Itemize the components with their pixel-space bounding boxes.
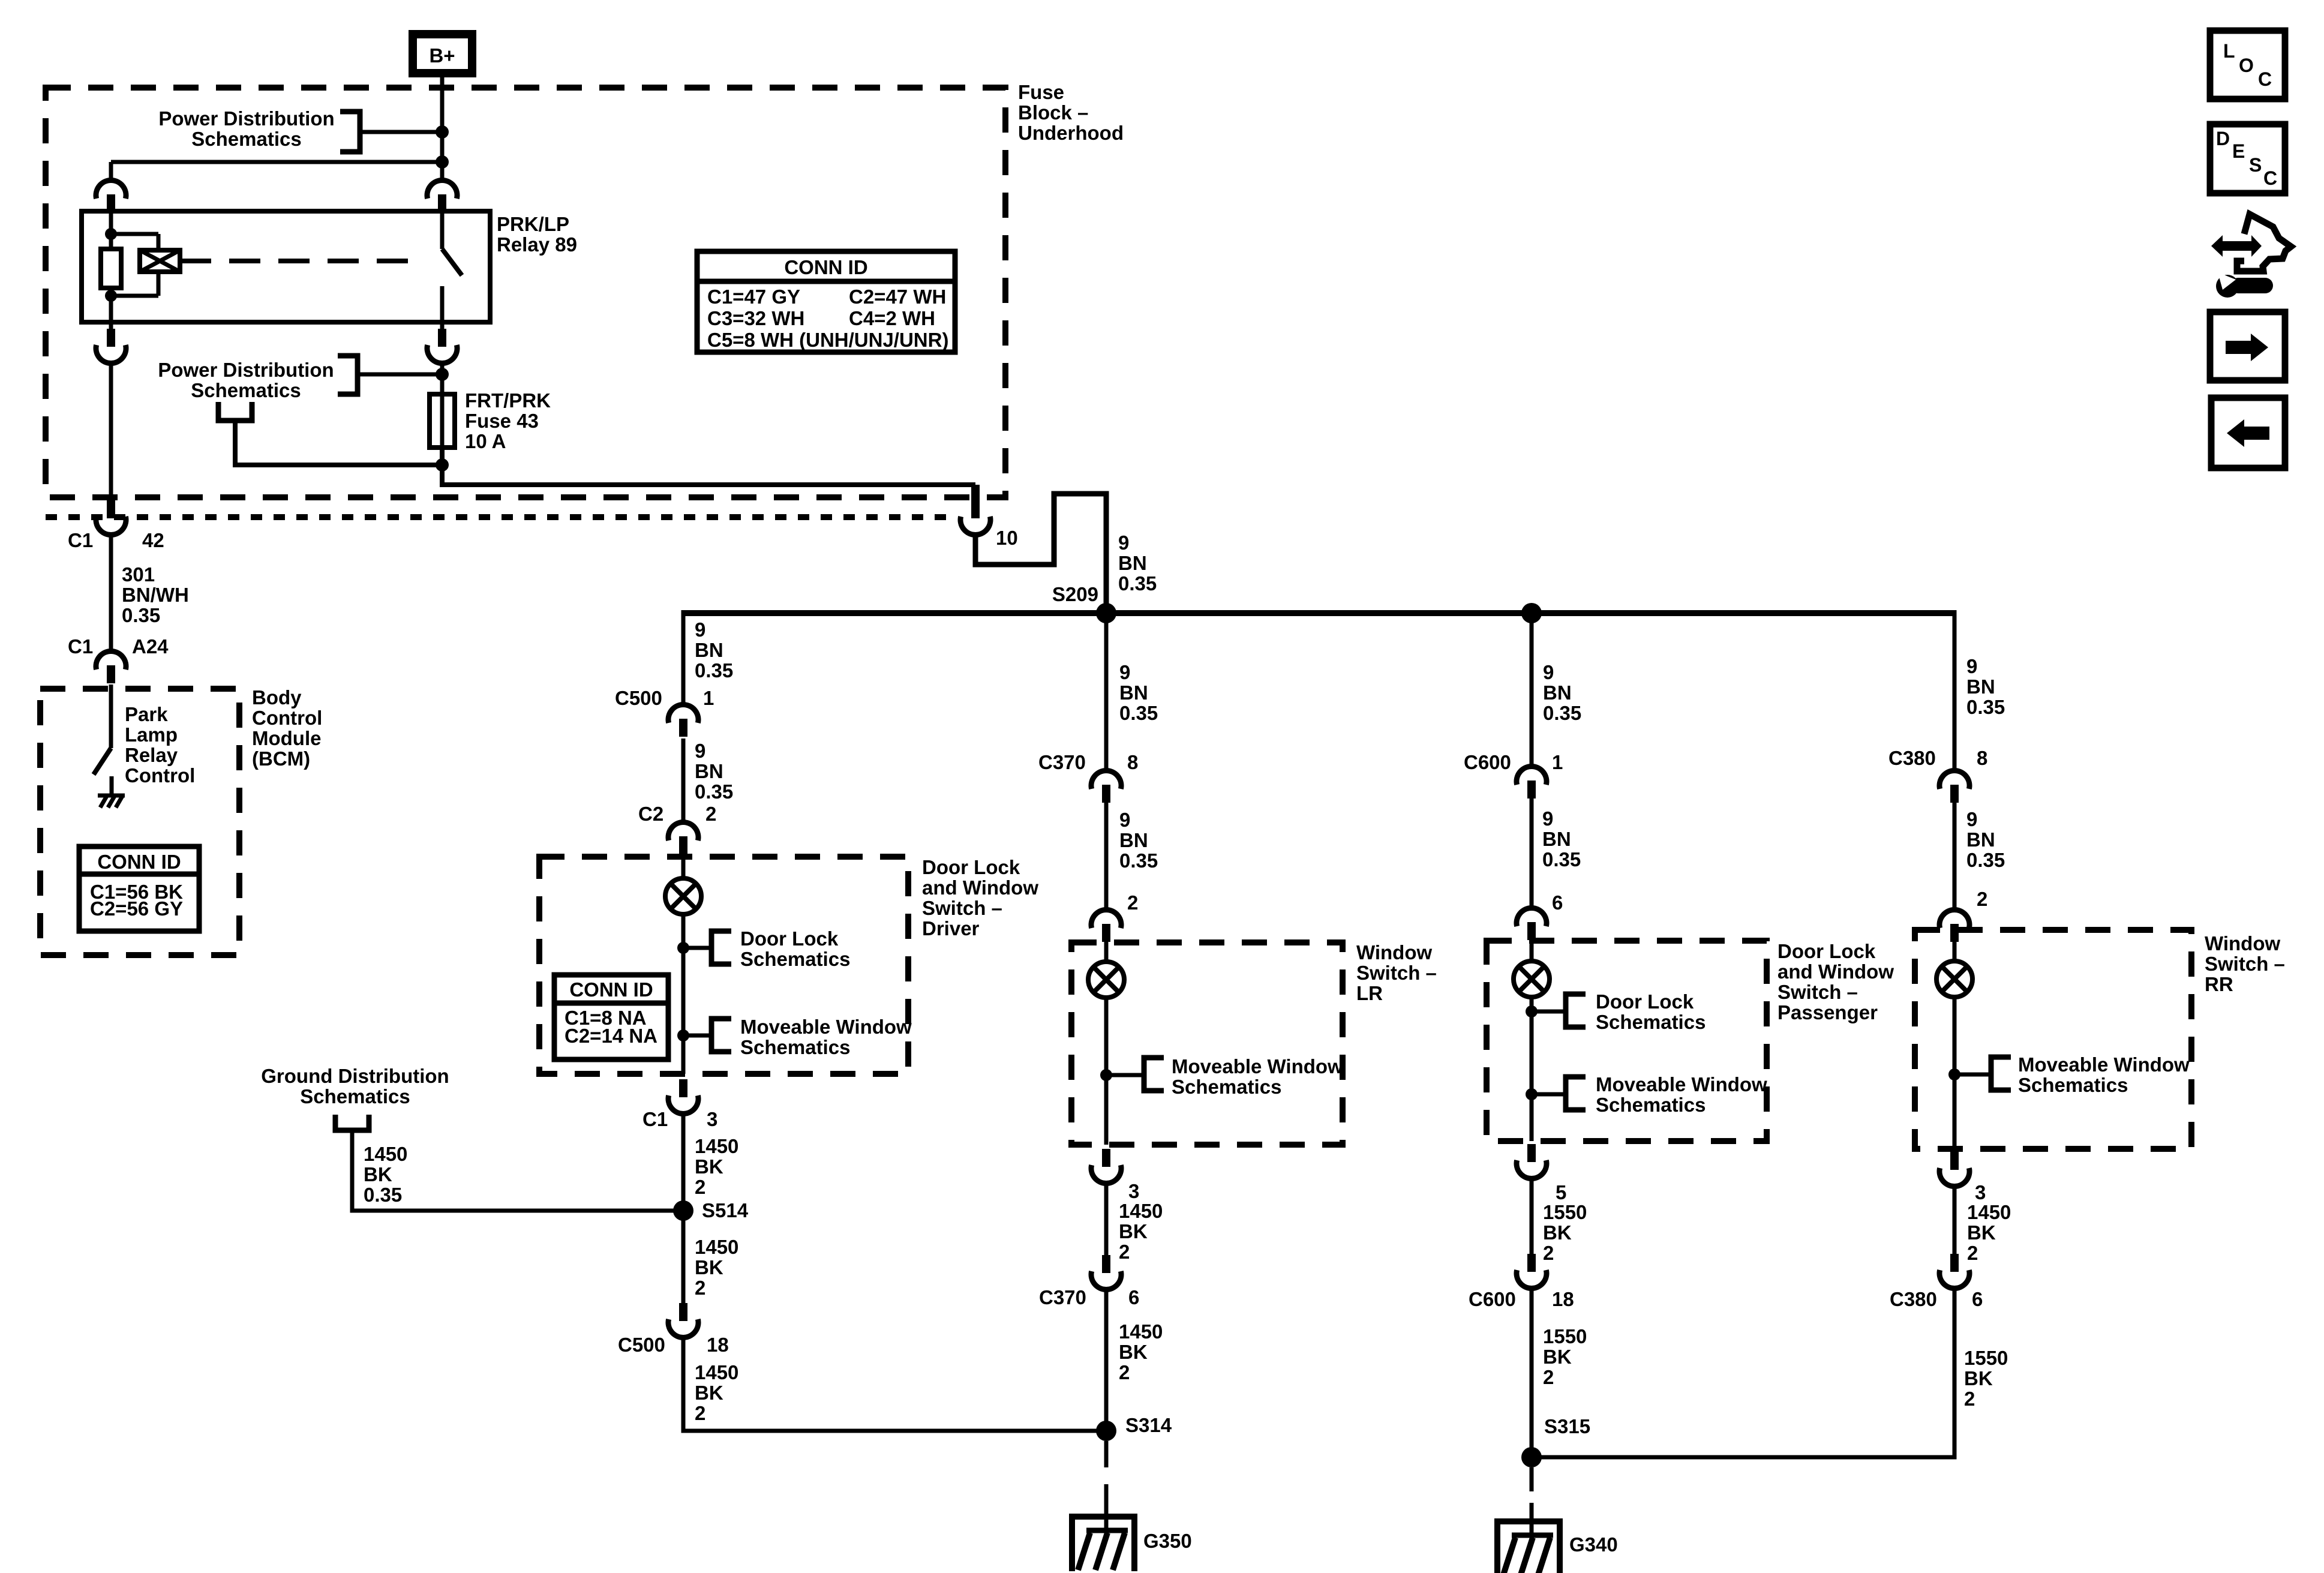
wire tap to LR stub (1106, 1073, 1144, 1077)
window switch LR dashed box (1071, 942, 1343, 1145)
wire into RR illumination lamp (1953, 939, 1957, 961)
svg-text:BN: BN (1966, 828, 1995, 851)
stub bracket moveable window schematics (RR) (1991, 1057, 2011, 1090)
stub bracket door lock schematics (passenger) (1566, 994, 1586, 1027)
wire stub to fuse feed (358, 373, 442, 377)
label wire 1450 BK 2 (driver upper) (695, 1135, 738, 1198)
wire S209 down to C370 pin 8 (1104, 613, 1109, 772)
svg-text:C380: C380 (1888, 747, 1936, 769)
svg-text:1550: 1550 (1543, 1325, 1587, 1347)
svg-text:BK: BK (1543, 1346, 1572, 1368)
connector C600 pin 18 (1469, 1254, 1574, 1310)
connector C1 pin A24 (68, 635, 169, 683)
svg-text:BK: BK (695, 1382, 723, 1404)
connector 10 fuse block output (960, 485, 1018, 549)
wire into park lamp relay control switch (109, 685, 113, 748)
svg-text:2: 2 (1543, 1366, 1554, 1388)
connector pin 3 LR exit (1091, 1149, 1139, 1202)
wire main bus 9 BN (683, 610, 1954, 616)
svg-text:Schematics: Schematics (1596, 1094, 1706, 1116)
icon LOC box (2210, 31, 2285, 99)
ground G340 (1494, 1521, 1563, 1573)
wire C600-18 to S315 (1530, 1287, 1534, 1457)
node splice S209 (1096, 603, 1116, 623)
svg-text:9: 9 (1542, 807, 1553, 830)
wire bus tap down to C600 pin 1 (1530, 613, 1534, 767)
wire switch to relay box bottom (440, 286, 445, 322)
svg-text:BN: BN (1966, 676, 1995, 698)
stub bracket moveable window schematics (driver) (711, 1019, 731, 1052)
svg-text:Power Distribution: Power Distribution (158, 107, 334, 130)
svg-text:B+: B+ (429, 44, 455, 67)
connector C380 pin 8 (1888, 747, 1987, 803)
svg-text:C500: C500 (615, 687, 662, 709)
label wire 9 BN 0.35 (driver lower) (695, 740, 733, 803)
svg-text:C5=8 WH (UNH/UNJ/UNR): C5=8 WH (UNH/UNJ/UNR) (707, 329, 948, 351)
wire 1450 BK 0.35 to S514 (352, 1130, 683, 1211)
svg-text:BN: BN (695, 639, 723, 661)
svg-text:8: 8 (1127, 751, 1138, 773)
svg-text:LR: LR (1356, 982, 1383, 1004)
door lock and window switch passenger dashed box (1487, 941, 1767, 1141)
svg-text:C380: C380 (1890, 1288, 1937, 1310)
svg-text:Block –: Block – (1018, 101, 1088, 124)
svg-text:Window: Window (1356, 941, 1432, 963)
battery terminal B+ (413, 34, 472, 73)
label Ground Distribution Schematics (261, 1065, 449, 1107)
node fuse bottom junction (436, 458, 449, 472)
stub bracket ground distribution (335, 1115, 369, 1130)
label Door Lock and Window Switch - Driver (922, 856, 1038, 939)
svg-text:6: 6 (1972, 1288, 1983, 1310)
wire stub to B+ feed (360, 130, 442, 134)
connector C1 pin 42 (68, 496, 164, 551)
wire tap to RR stub (1954, 1073, 1991, 1077)
svg-text:and Window: and Window (922, 876, 1038, 899)
svg-text:RR: RR (2205, 973, 2233, 995)
svg-text:0.35: 0.35 (1119, 702, 1158, 724)
svg-text:and Window: and Window (1777, 960, 1894, 983)
label wire 9 BN 0.35 (passenger upper) (1543, 661, 1581, 724)
svg-text:G350: G350 (1143, 1530, 1192, 1552)
svg-text:9: 9 (695, 740, 705, 762)
node passenger door lock tap (1526, 1005, 1538, 1017)
svg-text:3: 3 (1975, 1181, 1986, 1203)
svg-text:9: 9 (1966, 808, 1977, 830)
node junction relay coil feed (436, 155, 449, 169)
wire C370-8 to LR switch pin 2 (1104, 803, 1109, 911)
svg-text:C: C (2263, 167, 2277, 189)
label wire 1450 BK 2 (driver lower) (695, 1361, 738, 1424)
label wire 1450 BK 2 (LR lower) (1119, 1320, 1163, 1383)
svg-text:D: D (2216, 128, 2230, 149)
label Moveable Window Schematics (LR) (1172, 1055, 1343, 1098)
wire resistor leads (109, 234, 113, 249)
svg-text:2: 2 (1127, 891, 1138, 914)
relay linkage dashed line (180, 259, 420, 263)
svg-text:PRK/LP: PRK/LP (497, 213, 569, 235)
wire bus to C500 pin 1 (681, 610, 686, 706)
svg-text:1450: 1450 (1119, 1320, 1163, 1343)
svg-text:2: 2 (1543, 1242, 1554, 1264)
icon next-page arrow box (2210, 312, 2285, 380)
label Door Lock Schematics (passenger) (1596, 990, 1706, 1033)
instrument panel harness dotted line (46, 514, 956, 520)
svg-text:Module: Module (252, 727, 321, 749)
wire relay switch output to fuse (440, 362, 445, 394)
node coil top junction (105, 228, 117, 240)
fuse block dashed outline (46, 88, 1005, 497)
node junction power distribution tap (436, 125, 449, 139)
icon previous-page arrow box (2211, 398, 2285, 468)
svg-text:Door Lock: Door Lock (1596, 990, 1694, 1013)
node splice S315 (1521, 1447, 1542, 1467)
svg-text:Moveable Window: Moveable Window (740, 1016, 912, 1038)
svg-text:BK: BK (364, 1163, 392, 1185)
stub bracket moveable window schematics (LR) (1144, 1058, 1164, 1091)
connector pin 5 passenger exit (1517, 1144, 1566, 1203)
node driver moveable window tap (677, 1029, 689, 1041)
wire S314 to ground G350 (dashed) (1104, 1441, 1109, 1509)
svg-text:Schematics: Schematics (191, 128, 301, 150)
label wire 1550 BK 2 (RR) (1964, 1347, 2008, 1410)
svg-text:0.35: 0.35 (695, 659, 733, 682)
relay coil winding symbol (140, 250, 180, 272)
relay switch output connector (bottom right) (440, 322, 445, 330)
svg-text:2: 2 (1967, 1242, 1978, 1264)
svg-text:CONN ID: CONN ID (784, 256, 867, 278)
svg-text:1450: 1450 (695, 1135, 738, 1157)
wire jog from connector 10 to S209 (975, 494, 1106, 613)
svg-text:2: 2 (705, 803, 716, 825)
svg-text:Park: Park (125, 703, 168, 725)
svg-text:0.35: 0.35 (1543, 702, 1581, 724)
svg-text:0.35: 0.35 (364, 1184, 402, 1206)
label Window Switch - RR (2205, 932, 2285, 995)
svg-text:C2=56 GY: C2=56 GY (90, 897, 183, 920)
node LR moveable window tap (1100, 1069, 1112, 1081)
wire C600-1 to passenger switch pin 6 (1530, 798, 1534, 909)
svg-text:Switch –: Switch – (922, 897, 1002, 919)
node RR moveable window tap (1948, 1068, 1960, 1080)
connector id table CONN ID (fuse block) (697, 251, 955, 352)
svg-text:BK: BK (1967, 1221, 1996, 1244)
svg-text:Door Lock: Door Lock (922, 856, 1020, 878)
svg-text:Switch –: Switch – (2205, 953, 2285, 975)
svg-text:BK: BK (1119, 1220, 1148, 1242)
label Power Distribution Schematics (upper) (158, 107, 334, 150)
wire coil branch bottom (157, 272, 161, 296)
svg-text:O: O (2239, 55, 2254, 76)
relay coil pin connector (top left) (96, 181, 126, 212)
connector C2 pin 2 driver switch (638, 803, 716, 854)
park lamp relay control switch blade (94, 748, 111, 775)
svg-text:C370: C370 (1038, 751, 1086, 773)
wire C370-6 to S314 (1104, 1288, 1109, 1431)
svg-text:Control: Control (252, 707, 322, 729)
svg-text:3: 3 (1128, 1180, 1139, 1202)
relay box outline (82, 211, 490, 322)
svg-text:2: 2 (1119, 1241, 1130, 1263)
svg-text:FRT/PRK: FRT/PRK (465, 389, 551, 412)
svg-text:1450: 1450 (695, 1236, 738, 1258)
svg-text:Schematics: Schematics (191, 379, 301, 401)
label Moveable Window Schematics (RR) (2018, 1053, 2190, 1096)
svg-text:18: 18 (707, 1334, 729, 1356)
svg-text:Relay 89: Relay 89 (497, 233, 577, 256)
label wire 9 BN 0.35 (feed) (1118, 532, 1157, 595)
svg-text:Fuse: Fuse (1018, 81, 1064, 103)
label Body Control Module (BCM) (252, 686, 322, 770)
svg-text:1: 1 (703, 687, 714, 709)
svg-text:BN: BN (1119, 829, 1148, 851)
wire into LR illumination lamp (1104, 939, 1109, 962)
svg-text:C2=47 WH: C2=47 WH (849, 286, 946, 308)
connector C500 pin 18 (618, 1303, 729, 1356)
wire coil pin into box (109, 209, 113, 234)
label Power Distribution Schematics (lower) (158, 359, 334, 401)
relay switch blade (442, 249, 462, 275)
svg-text:BK: BK (695, 1155, 723, 1178)
svg-text:C600: C600 (1469, 1288, 1516, 1310)
label FRT/PRK Fuse 43 10 A (465, 389, 551, 452)
lamp LR switch illumination (1088, 962, 1124, 998)
node splice S314 (1096, 1421, 1116, 1441)
svg-text:C1=47 GY: C1=47 GY (707, 286, 800, 308)
wire 301 BN/WH 0.35 (109, 533, 113, 652)
svg-text:8: 8 (1977, 747, 1987, 769)
svg-text:Lamp: Lamp (125, 724, 178, 746)
svg-text:Moveable Window: Moveable Window (1596, 1073, 1767, 1095)
stub bracket moveable window schematics (passenger) (1566, 1077, 1586, 1110)
label wire 9 BN 0.35 (LR lower) (1119, 809, 1158, 872)
label Door Lock Schematics (driver) (740, 927, 850, 970)
lamp passenger switch illumination (1514, 961, 1550, 997)
svg-text:Body: Body (252, 686, 302, 709)
svg-text:Relay: Relay (125, 744, 178, 766)
connector id table CONN ID (driver switch) (554, 975, 668, 1059)
wire C500-1 to C2-2 9 BN 0.35 (681, 739, 686, 823)
wire tap to moveable window stub (683, 1034, 711, 1038)
wire stub down and to fuse bottom junction (235, 421, 442, 465)
wire lamp to driver box exit (681, 914, 686, 1074)
svg-text:Switch –: Switch – (1356, 962, 1437, 984)
svg-text:6: 6 (1552, 891, 1563, 914)
wire 1450 BK 2 to C380 pin 6 (1953, 1185, 1957, 1254)
svg-text:BK: BK (1543, 1221, 1572, 1244)
svg-text:Underhood: Underhood (1018, 122, 1124, 144)
svg-text:A24: A24 (132, 635, 169, 658)
relay switch pin connector (top right) (427, 181, 457, 212)
svg-text:Driver: Driver (922, 917, 980, 939)
svg-text:0.35: 0.35 (1119, 849, 1158, 872)
stub bracket power distribution ground side (218, 402, 252, 421)
svg-text:BN: BN (1119, 682, 1148, 704)
svg-text:C370: C370 (1039, 1286, 1086, 1308)
relay coil output connector (bottom left) (109, 322, 113, 330)
label Moveable Window Schematics (driver) (740, 1016, 912, 1058)
svg-text:G340: G340 (1569, 1533, 1618, 1556)
svg-text:C3=32 WH: C3=32 WH (707, 307, 804, 329)
svg-text:18: 18 (1552, 1288, 1574, 1310)
svg-text:2: 2 (1964, 1388, 1975, 1410)
wire C380-8 to RR switch pin 2 (1953, 803, 1957, 911)
svg-text:9: 9 (1119, 661, 1130, 683)
svg-text:S: S (2249, 154, 2262, 176)
svg-text:CONN ID: CONN ID (569, 978, 653, 1001)
wire switch to ground (110, 776, 114, 794)
label wire 9 BN 0.35 (driver upper) (695, 619, 733, 682)
node splice S514 (673, 1200, 693, 1221)
svg-text:2: 2 (1119, 1361, 1130, 1383)
wire switch pin into box (440, 209, 445, 249)
svg-text:0.35: 0.35 (122, 604, 160, 626)
label Window Switch - LR (1356, 941, 1437, 1004)
svg-text:Ground Distribution: Ground Distribution (261, 1065, 449, 1087)
wire lamp to RR box exit (1953, 997, 1957, 1149)
connector C500 pin 1 (615, 687, 714, 737)
relay PRK/LP Relay 89 (82, 181, 577, 364)
svg-text:BN: BN (1543, 682, 1572, 704)
label wire 9 BN 0.35 (RR lower) (1966, 808, 2005, 871)
wire tap to passenger door lock stub (1532, 1010, 1566, 1014)
svg-text:Switch –: Switch – (1777, 981, 1858, 1003)
node fuse top junction (436, 368, 449, 381)
wire 1450 BK 2 to C370 pin 6 (1104, 1182, 1109, 1255)
svg-text:2: 2 (695, 1277, 705, 1299)
connector C600 pin 1 (1464, 751, 1563, 798)
svg-text:Schematics: Schematics (300, 1085, 410, 1107)
svg-text:Fuse 43: Fuse 43 (465, 410, 539, 432)
label wire 1450 BK 2 (LR upper) (1119, 1200, 1163, 1263)
svg-text:0.35: 0.35 (695, 781, 733, 803)
svg-text:S514: S514 (702, 1199, 749, 1221)
node splice passenger tap (1521, 603, 1542, 623)
svg-text:Schematics: Schematics (1596, 1011, 1706, 1033)
connector C1 pin 3 driver exit (642, 1079, 717, 1130)
svg-text:CONN ID: CONN ID (97, 851, 181, 873)
svg-text:BK: BK (1119, 1341, 1148, 1363)
wire C500-18 to S314 (683, 1336, 1106, 1431)
svg-text:Moveable Window: Moveable Window (1172, 1055, 1343, 1077)
wire S315 to ground G340 (dashed) (1530, 1467, 1534, 1509)
label wire 1550 BK 2 (passenger upper) (1543, 1201, 1587, 1264)
connector pin 2 RR switch (1939, 888, 1987, 942)
stub bracket power distribution upper (340, 112, 360, 152)
svg-text:0.35: 0.35 (1966, 696, 2005, 718)
connector C380 pin 6 (1890, 1254, 1983, 1310)
svg-text:Schematics: Schematics (740, 948, 850, 970)
wire lamp to LR box exit (1104, 998, 1109, 1145)
wire tap to passenger moveable window stub (1532, 1092, 1566, 1097)
svg-text:BK: BK (695, 1256, 723, 1278)
wire into driver illumination lamp (681, 854, 686, 878)
label Moveable Window Schematics (passenger) (1596, 1073, 1767, 1116)
svg-text:1550: 1550 (1964, 1347, 2008, 1369)
svg-text:0.35: 0.35 (1966, 849, 2005, 871)
svg-text:Door Lock: Door Lock (1777, 940, 1876, 962)
svg-text:L: L (2223, 40, 2235, 62)
svg-text:Schematics: Schematics (2018, 1074, 2128, 1096)
label PRK/LP Relay 89 (497, 213, 577, 256)
wire coil to relay box bottom (109, 296, 113, 322)
wire tap to door lock stub (683, 946, 711, 950)
svg-text:9: 9 (695, 619, 705, 641)
svg-text:S209: S209 (1052, 583, 1098, 605)
connector pin 3 RR exit (1939, 1152, 1986, 1203)
svg-text:Passenger: Passenger (1777, 1001, 1878, 1023)
connector pin 6 passenger switch (1517, 891, 1563, 940)
connector C370 pin 8 (1038, 751, 1138, 803)
svg-text:10 A: 10 A (465, 430, 506, 452)
connector C370 pin 6 (1039, 1255, 1139, 1308)
icon DESC box (2210, 124, 2285, 193)
label Door Lock and Window Switch - Passenger (1777, 940, 1894, 1023)
wire 1550 BK 2 to C600 pin 18 (1530, 1177, 1534, 1254)
svg-text:1450: 1450 (695, 1361, 738, 1383)
svg-text:3: 3 (707, 1108, 717, 1130)
resistor relay coil suppression resistor (101, 249, 121, 288)
lamp driver switch illumination (665, 878, 701, 914)
svg-text:Window: Window (2205, 932, 2280, 954)
svg-text:BK: BK (1964, 1367, 1993, 1389)
wire relay coil output down to C1 pin 42 (109, 362, 113, 499)
svg-text:1450: 1450 (1119, 1200, 1163, 1222)
wire bus to C380 pin 8 (1953, 610, 1957, 772)
stub bracket door lock schematics (driver) (711, 931, 731, 964)
svg-text:1: 1 (1552, 751, 1563, 773)
svg-text:9: 9 (1966, 655, 1977, 677)
svg-text:C2: C2 (638, 803, 663, 825)
label wire 9 BN 0.35 (LR upper) (1119, 661, 1158, 724)
svg-text:BN: BN (695, 760, 723, 782)
node passenger moveable window tap (1526, 1088, 1538, 1100)
svg-text:Power Distribution: Power Distribution (158, 359, 334, 381)
wire B+ to relay pin 1 (440, 77, 445, 181)
wire lamp to passenger box exit (1530, 997, 1534, 1141)
svg-text:Schematics: Schematics (740, 1036, 850, 1058)
svg-text:1450: 1450 (1967, 1201, 2011, 1223)
icon vehicle with wrench (2211, 214, 2291, 298)
wire C380-6 to S315 (1532, 1287, 1954, 1457)
wire fuse output (442, 448, 975, 485)
svg-text:S315: S315 (1544, 1415, 1590, 1437)
svg-text:1450: 1450 (364, 1143, 407, 1165)
wire B+ feed to relay coil pin (111, 160, 442, 164)
svg-text:6: 6 (1128, 1286, 1139, 1308)
svg-text:42: 42 (142, 529, 164, 551)
wire into passenger illumination lamp (1530, 938, 1534, 961)
label wire 1550 BK 2 (passenger lower) (1543, 1325, 1587, 1388)
svg-text:BN/WH: BN/WH (122, 584, 189, 606)
svg-text:9: 9 (1118, 532, 1129, 554)
label Fuse Block - Underhood (1018, 81, 1124, 144)
svg-text:5: 5 (1556, 1181, 1566, 1203)
svg-text:0.35: 0.35 (1118, 572, 1157, 595)
svg-text:C4=2 WH: C4=2 WH (849, 307, 935, 329)
svg-text:9: 9 (1543, 661, 1554, 683)
svg-text:Moveable Window: Moveable Window (2018, 1053, 2190, 1076)
lamp RR switch illumination (1936, 961, 1972, 997)
svg-text:2: 2 (695, 1176, 705, 1198)
wire 1450 BK 2 to S514 (681, 1112, 686, 1211)
svg-text:C1: C1 (68, 529, 93, 551)
label wire 9 BN 0.35 (passenger lower) (1542, 807, 1581, 870)
label wire 1450 BK 0.35 (364, 1143, 407, 1206)
label wire 301 BN/WH 0.35 (122, 563, 189, 626)
wire coil branch top (111, 232, 158, 236)
svg-text:Door Lock: Door Lock (740, 927, 839, 950)
